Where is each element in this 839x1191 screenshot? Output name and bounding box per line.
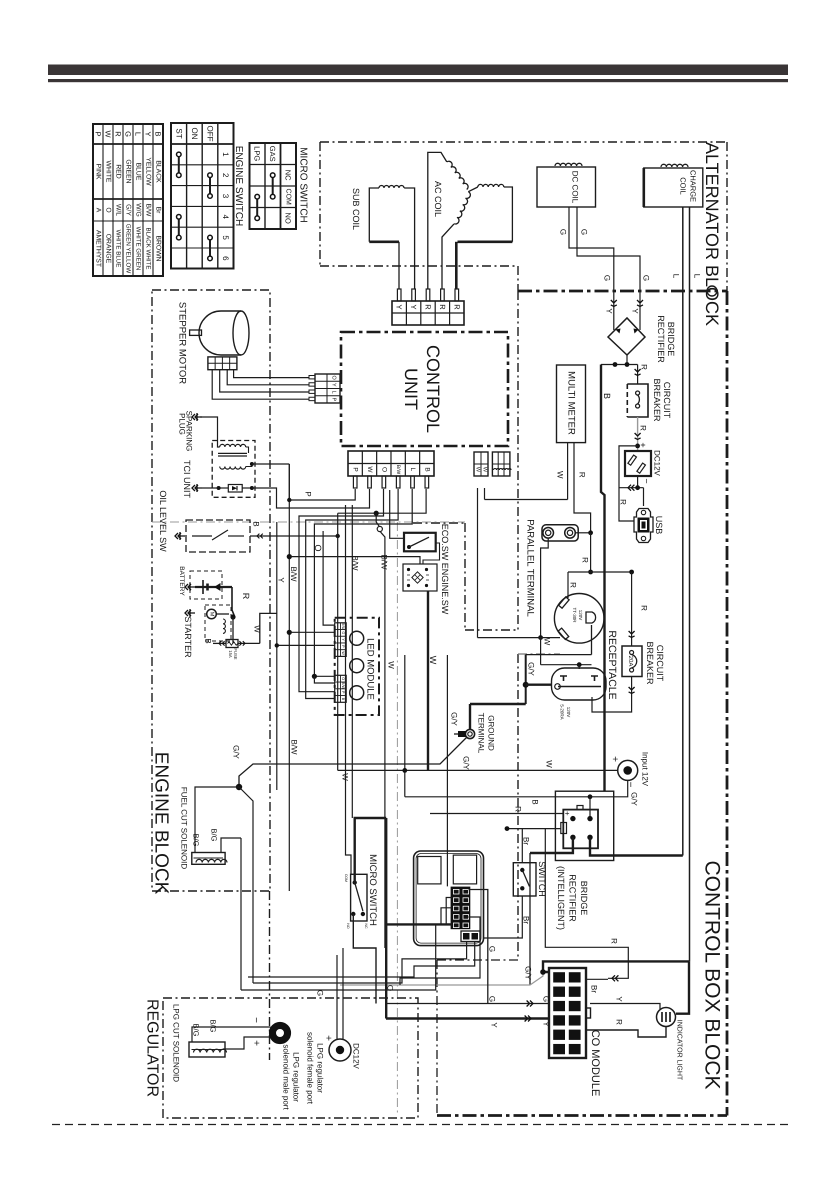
page top thin bar [48,79,788,82]
svg-text:INDICATOR LIGHT: INDICATOR LIGHT [676,1020,683,1081]
svg-text:A: A [95,208,102,213]
svg-text:G: G [488,946,497,952]
wire colour legend table text [94,130,163,273]
svg-text:G/Y: G/Y [450,712,459,726]
svg-text:LPG regulator: LPG regulator [316,1043,325,1093]
engine switch relay box [403,564,437,591]
wire O to eco switch [376,513,385,948]
svg-text:TCI UNIT: TCI UNIT [182,460,192,498]
svg-text:W: W [387,661,396,669]
wire R from indicator [586,1027,666,1038]
circuit breaker label [652,378,672,422]
dc12v socket [625,451,651,476]
svg-text:Y: Y [277,577,286,583]
svg-text:MULTI METER: MULTI METER [566,371,577,435]
oil level switch symbol [175,532,185,540]
alternator block border [320,142,727,291]
svg-text:B/W: B/W [145,204,152,217]
wires B/W pair vertical [346,505,353,874]
svg-text:R: R [581,557,590,563]
panel feed wire from above [446,655,448,886]
svg-text:SWITCH: SWITCH [537,861,547,897]
svg-text:5-20RA: 5-20RA [560,704,565,719]
svg-text:L: L [672,274,681,279]
svg-text:WHITE: WHITE [105,161,112,183]
svg-text:WHITE BLUE: WHITE BLUE [115,230,122,268]
svg-text:UNIT: UNIT [401,368,421,410]
svg-text:W: W [366,466,373,473]
svg-text:R: R [241,593,251,600]
svg-text:Br: Br [155,207,162,215]
svg-text:NO: NO [284,213,293,224]
sparking plug label [178,411,194,452]
wire G into co module [386,1001,549,1007]
parallel terminal body [542,525,578,541]
wire W thick from engine sw [427,591,429,770]
svg-text:B: B [423,467,430,471]
engine block border [152,290,270,891]
bridge rectifier label [656,315,676,363]
multimeter leads [485,443,591,533]
svg-text:COM: COM [285,189,292,206]
page top thick bar [48,65,788,76]
svg-text:R: R [114,131,123,137]
svg-text:P: P [331,398,337,402]
svg-text:15A: 15A [228,650,233,658]
svg-text:NC: NC [284,170,293,181]
svg-text:CONTROL: CONTROL [423,345,443,433]
svg-text:ON: ON [190,128,199,140]
intelligent bridge thick output to L wire [590,837,683,855]
input 12v connector [609,756,638,788]
svg-text:B/G: B/G [209,1020,218,1033]
bridge rectifier intelligent label [556,866,589,930]
svg-text:R: R [578,472,587,478]
bridge rectifier diamond [608,318,645,355]
wire R to intelligent bridge [430,813,563,815]
co module connector [549,968,591,1058]
svg-text:Y: Y [331,383,337,387]
svg-text:B: B [341,698,345,701]
panel small connector [461,931,480,942]
svg-text:B/G: B/G [210,829,219,842]
svg-text:CIRCUIT: CIRCUIT [655,645,665,682]
svg-text:GAS: GAS [268,146,277,162]
svg-text:B/G: B/G [192,834,201,847]
svg-text:G: G [316,990,325,996]
svg-text:W: W [428,656,438,665]
wire B thick from rectifier [601,365,605,792]
svg-text:R: R [569,582,578,588]
svg-text:RECTIFIER: RECTIFIER [568,874,578,922]
panel white windows [418,855,477,884]
svg-text:G: G [603,275,612,281]
svg-text:Br: Br [522,837,531,845]
lpg female port label [306,1032,325,1105]
micro switch tiny labels [344,874,368,929]
led feeder wires [275,489,413,699]
svg-text:RECEPTACLE: RECEPTACLE [606,630,618,699]
svg-text:CONTROL BOX BLOCK: CONTROL BOX BLOCK [701,860,724,1089]
svg-text:LPG CUT SOLENOID: LPG CUT SOLENOID [172,1004,181,1082]
switch wires Br [484,829,522,938]
wire R battery to starter relay [232,587,234,617]
engine switch contact links OFF 5-6 [208,235,213,260]
eco switch box [404,533,436,552]
svg-text:20A: 20A [627,656,634,667]
usb port [634,509,653,543]
svg-text:BREAKER: BREAKER [645,641,655,685]
svg-text:B/W: B/W [351,555,360,571]
svg-text:W/G: W/G [135,203,142,217]
battery terminal symbol [185,583,195,591]
svg-text:B: B [602,393,612,399]
control unit aux connector W W [474,452,488,476]
control unit label [401,345,443,433]
tt-30r wires [567,572,569,598]
panel unit rounded box [414,851,484,946]
switch box (control box) [513,863,536,896]
svg-text:+: + [250,1040,261,1046]
ground terminal label [477,713,496,754]
svg-text:ECO.SW ENGINE.SW: ECO.SW ENGINE.SW [440,524,450,615]
svg-text:W: W [482,467,488,473]
panel connector stubs [441,898,452,925]
svg-text:COM: COM [344,874,348,882]
wire W tci to control unit [252,488,370,508]
svg-text:O: O [341,677,345,680]
stepper motor body [190,311,249,355]
micro switch table grid [250,143,297,229]
svg-text:(INTELLIGENT): (INTELLIGENT) [556,866,566,930]
control box block border heavy [437,291,727,1116]
svg-text:solenoid male port: solenoid male port [282,1044,291,1110]
svg-text:AC COIL: AC COIL [433,181,443,217]
wire B/W vertical [287,464,292,891]
wire R breaker to dc12v [635,417,641,451]
svg-text:Y: Y [395,304,404,309]
svg-text:solenoid female port: solenoid female port [306,1032,315,1105]
led module upper connector [335,623,347,657]
svg-text:STEPPER MOTOR: STEPPER MOTOR [177,302,188,384]
svg-text:L: L [331,391,337,394]
svg-text:BRIDGE: BRIDGE [579,881,589,916]
svg-text:W: W [475,467,481,473]
lpg regulator solenoid male port [270,1023,291,1044]
tci kill switch symbol [192,484,202,492]
led module lamps [350,631,364,699]
svg-text:FUSE: FUSE [233,648,238,659]
wire G/Y from input 12v [590,781,628,797]
svg-text:SPARKING: SPARKING [185,411,194,452]
svg-text:BATTERY: BATTERY [178,566,185,596]
svg-text:1: 1 [221,152,230,157]
tci unit transformer [218,444,252,469]
wire sparking plug to tci [200,417,220,447]
svg-text:+: + [609,756,620,762]
wire R from intelligent bridge fuse [505,826,629,981]
svg-text:ENGINE BLOCK: ENGINE BLOCK [151,752,172,895]
svg-text:YELLOW: YELLOW [145,157,152,186]
wire G/Y gray into co module [340,969,546,985]
stepper motor connector [208,357,237,370]
panel connector grid [451,887,471,930]
circuit breaker (top) [627,384,648,417]
micro switch contact link GAS NC-COM [270,173,275,199]
indicator light [657,1008,676,1027]
svg-text:L: L [409,468,416,472]
wires down to regulator [239,787,253,990]
stepper motor wires [212,370,309,400]
svg-text:P: P [341,645,345,648]
svg-text:W: W [545,760,554,768]
svg-text:G/Y: G/Y [527,662,536,676]
svg-text:Y: Y [341,638,345,641]
engine switch contact links ST 1-2 [177,152,182,177]
svg-text:RECTIFIER: RECTIFIER [656,315,666,363]
control unit bottom connector strip [348,451,434,476]
svg-text:RED: RED [115,164,122,178]
wire Y vertical [276,522,278,790]
control unit top connector letters [395,304,462,310]
svg-text:M: M [209,612,215,617]
svg-text:Input 12V: Input 12V [641,752,650,787]
svg-text:Y: Y [605,308,614,314]
svg-text:R: R [514,806,523,812]
svg-text:LED MODULE: LED MODULE [365,638,376,700]
svg-text:BLUE: BLUE [135,163,142,181]
bridge rectifier intelligent inner box [561,806,598,849]
svg-text:P: P [304,491,313,496]
engine switch contact links ST 4-5 [177,215,182,240]
svg-text:Y: Y [144,131,153,136]
svg-text:R: R [639,425,648,431]
svg-text:G: G [341,632,345,635]
charge coil label [679,170,698,202]
svg-text:O: O [331,375,337,380]
svg-text:OFF: OFF [206,126,215,142]
svg-text:G/Y: G/Y [462,756,471,770]
panel wires staircase [241,917,480,990]
ground terminal [454,729,475,738]
co module thick power feed [543,961,689,1013]
svg-text:R: R [615,1019,624,1025]
svg-text:G: G [559,229,568,235]
wire B to intelligent bridge [405,794,593,818]
sparking plug symbol [192,413,202,421]
circuit breaker 20A wires [592,572,635,712]
svg-text:R: R [424,304,433,310]
svg-text:BRIDGE: BRIDGE [666,322,676,357]
tt-30r receptacle [554,594,604,644]
micro switch box [351,874,367,921]
svg-text:B/W: B/W [395,465,401,475]
svg-text:G: G [580,229,589,235]
svg-text:Y: Y [490,1022,499,1028]
wire Y to indicator [590,1004,660,1010]
svg-text:4: 4 [221,215,230,220]
svg-text:AMETHYST: AMETHYST [95,230,102,267]
svg-text:DC12V: DC12V [653,450,662,476]
svg-text:BROWN: BROWN [155,235,162,261]
svg-text:G/Y: G/Y [524,966,533,980]
svg-text:Br: Br [590,985,599,993]
svg-text:ORANGE: ORANGE [105,234,112,264]
dc12v plug wires [337,948,343,1040]
svg-text:−: − [625,782,636,788]
control unit side connector (stepper) [309,374,340,403]
engine switch contact links OFF 2-3 [208,173,213,198]
engine switch table headers [174,126,230,262]
panel boundary dash-dot gray horizontal [152,521,465,523]
svg-text:WHITE GREEN: WHITE GREEN [135,227,142,271]
control unit aux connector coil plugs [492,452,511,476]
svg-text:W: W [543,638,552,646]
svg-text:−: − [250,1017,261,1023]
svg-text:120V: 120V [566,707,571,718]
fuel cut solenoid wires [195,787,241,853]
starter terminal symbol [185,609,195,617]
svg-text:OIL LEVEL SW: OIL LEVEL SW [158,490,168,552]
svg-text:BLACK WHITE: BLACK WHITE [145,228,152,270]
svg-text:G: G [124,131,133,137]
svg-text:5: 5 [221,235,230,240]
svg-text:B/W: B/W [289,566,298,582]
svg-text:G/Y: G/Y [232,745,241,759]
svg-text:+: + [638,442,648,447]
circuit breaker 20A label [645,641,665,685]
svg-text:PARALLEL TERMINAL: PARALLEL TERMINAL [525,519,536,617]
svg-text:R: R [438,304,447,310]
control unit bottom connector letters [352,465,431,475]
dc12v slots [628,455,646,473]
svg-text:G: G [488,996,497,1002]
wire R to circuit breaker [635,365,641,385]
wire tci kill [202,487,219,489]
svg-text:REGULATOR: REGULATOR [144,999,161,1097]
svg-text:ALTERNATOR BLOCK: ALTERNATOR BLOCK [702,142,722,326]
fuel cut solenoid [192,853,227,865]
led module box [335,618,379,715]
control unit box [341,332,508,446]
micro switch contact link LPG COM-NO [255,194,260,220]
wire R dc12v to usb [619,446,652,521]
intelligent bridge thick output to ground wire [530,837,573,985]
svg-text:B: B [252,521,261,526]
wire Y thick into co module [386,1016,549,1022]
svg-text:−: − [642,478,652,483]
svg-text:ENGINE SWITCH: ENGINE SWITCH [233,146,244,227]
oil level switch box [186,520,250,552]
svg-text:COIL: COIL [679,177,688,195]
tci unit box [212,441,255,498]
border junction circle marker [707,286,717,296]
svg-text:Y: Y [409,304,418,309]
svg-text:W: W [341,651,345,655]
bridge rectifier output node wires [601,355,638,367]
ac coil three phase star [428,152,513,289]
ground terminal diagonal wire [236,738,467,791]
svg-text:P: P [352,467,359,471]
micro switch thick wires [353,818,386,1019]
wire B from control unit [338,489,426,770]
page bottom dashed separator [52,1124,790,1126]
control box block border left [413,291,560,1116]
svg-text:6: 6 [221,256,230,261]
panel thick feed wire [386,923,452,925]
svg-text:CIRCUIT: CIRCUIT [662,382,672,419]
regulator block border [163,891,418,1118]
svg-text:NO: NO [346,923,350,929]
svg-text:FUEL CUT SOLENOID: FUEL CUT SOLENOID [180,787,189,869]
wire B oil level to bundle [250,534,340,539]
fuse wires [213,613,277,645]
battery symbol [190,571,232,599]
svg-text:R: R [619,499,628,505]
svg-text:W: W [556,471,565,479]
svg-text:G/Y: G/Y [125,204,132,216]
svg-text:B/G: B/G [192,1024,201,1037]
svg-text:Br: Br [522,916,531,924]
control unit top connector strip [392,301,464,325]
svg-text:R: R [610,938,619,944]
svg-text:B/W: B/W [341,623,345,630]
lpg male port label [282,1044,301,1110]
svg-text:B: B [204,638,213,643]
svg-text:B: B [531,799,540,804]
svg-text:O: O [105,207,112,212]
dc coil leads G [569,207,643,330]
svg-text:MICRO SWITCH: MICRO SWITCH [367,854,378,926]
svg-text:2: 2 [221,173,230,178]
dc coil box [537,163,596,207]
svg-text:Y: Y [631,308,640,314]
svg-text:L: L [693,274,702,279]
led module lower connector [335,675,347,702]
svg-text:R: R [640,605,649,611]
starter motor [205,605,236,641]
svg-text:+: + [323,1035,334,1041]
receptacle 5-20ra [552,668,607,700]
wire P tci to control unit [252,464,355,500]
svg-text:+: + [563,811,572,816]
charge coil leads L [683,207,690,961]
svg-text:Y: Y [542,1021,551,1027]
svg-text:3: 3 [221,194,230,199]
wire colour legend table grid [93,124,163,276]
svg-text:Y: Y [615,996,624,1002]
svg-text:STARTER: STARTER [183,616,193,658]
tt-30r text [572,607,583,623]
svg-text:W: W [253,625,262,633]
wire B/W to led module [289,631,334,633]
dc12v plug (regulator) [329,1039,351,1061]
svg-text:LPG regulator: LPG regulator [292,1052,301,1102]
svg-text:USB: USB [654,516,664,535]
sub coil [369,186,414,289]
svg-text:O: O [380,467,387,472]
wire eco sw feed [390,490,404,538]
svg-text:MICRO SWITCH: MICRO SWITCH [298,147,309,223]
svg-text:GREEN YELLOW: GREEN YELLOW [125,224,132,274]
micro switch table headers [253,146,293,224]
svg-text:DC12V: DC12V [352,1043,361,1069]
svg-text:B/W: B/W [341,682,345,689]
svg-text:B/W: B/W [380,554,389,570]
ground bus thick wires [470,625,592,729]
svg-text:GREEN: GREEN [125,159,132,183]
wire B/W horizontal to engine sw [289,557,420,564]
